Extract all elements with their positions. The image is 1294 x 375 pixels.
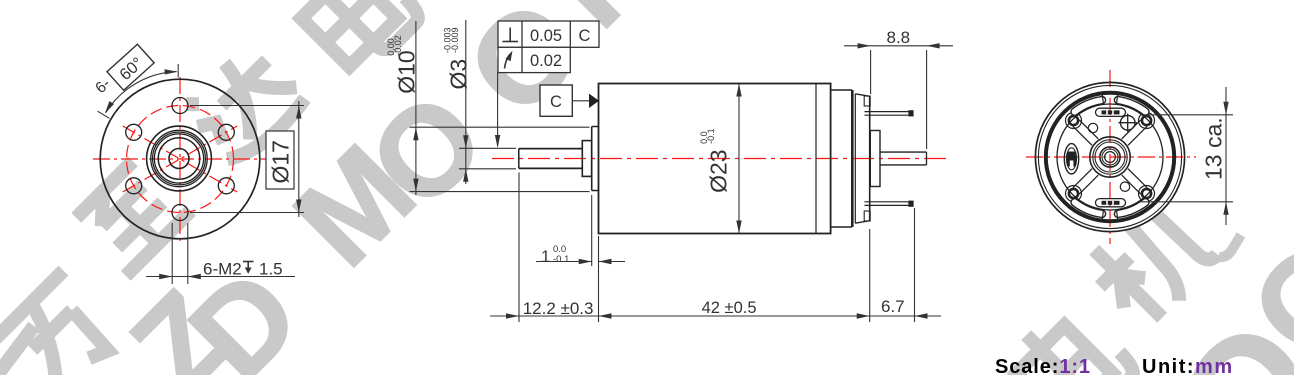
rear ring A top: [831, 89, 852, 91]
front boss bottom: [592, 190, 599, 192]
fcf frame row2: [498, 47, 570, 72]
crescent lower-right: [1118, 202, 1145, 214]
arc arrow right: [165, 69, 178, 74]
red radial 30-210: [123, 126, 237, 192]
spoke lower-left: [1073, 169, 1092, 188]
rear shaft top: [880, 151, 927, 153]
rear face: [869, 96, 871, 220]
svg-text:C: C: [579, 27, 591, 45]
arrow 6.7 right: [915, 313, 928, 318]
inner face circle: [1057, 104, 1163, 210]
dim 13 line: [1225, 87, 1227, 225]
bearing ring 3: [154, 134, 203, 183]
bearing ring 1: [151, 130, 207, 186]
rear ring A face thick: [851, 90, 854, 227]
fcf leader: [497, 73, 499, 146]
bottom ext line pin end: [914, 208, 916, 322]
rear shaft end: [926, 152, 928, 165]
shaft top: [519, 148, 583, 150]
dim phi3 ext bottom: [459, 168, 516, 170]
dim 8.8 arrow left: [858, 43, 871, 48]
terminal pin bottom tip: [908, 201, 913, 207]
terminal pin bottom: [865, 201, 914, 203]
dim 17 extension top: [190, 105, 304, 107]
svg-text:6-M2: 6-M2: [203, 260, 242, 279]
shaft bottom: [519, 167, 583, 169]
datum leader: [572, 100, 590, 102]
red bolt circle: [127, 106, 234, 213]
svg-text:42 ±0.5: 42 ±0.5: [702, 299, 757, 317]
watermark corner bar: [0, 326, 34, 374]
svg-text:Ø10: Ø10: [393, 50, 419, 93]
grommet outer: [1064, 144, 1078, 174]
rivet upper-right: [1139, 113, 1155, 129]
arc tick at 150deg: [98, 111, 110, 118]
watermark hanzi ji: [1079, 190, 1222, 333]
bottom ext line rear face: [869, 229, 871, 322]
dim phi3 arrow down: [463, 135, 468, 148]
dim 1 arrow left: [599, 259, 612, 264]
rivet lower-right: [1139, 186, 1155, 202]
hub ring 4: [1100, 147, 1120, 167]
svg-text:-0.1: -0.1: [706, 128, 716, 144]
vent screw circle: [1120, 115, 1135, 130]
red centerline: [492, 158, 947, 160]
dim 1 ext left: [591, 195, 593, 266]
crescent upper-left: [1075, 100, 1102, 112]
rolled rim thick ring: [1046, 93, 1174, 221]
terminal slot bottom: [1096, 199, 1126, 207]
dim phi17 box: [266, 131, 294, 189]
bolt hole top: [172, 98, 188, 114]
crescent upper-right: [1118, 100, 1145, 112]
front boss top: [592, 126, 599, 128]
dim 1 arrow right: [579, 259, 592, 264]
arrow at body face: [599, 313, 612, 318]
dim 8.8 line: [844, 45, 953, 47]
dim phi10 line: [415, 21, 417, 195]
hub ring 3: [1095, 142, 1125, 172]
red centerline horizontal: [1026, 156, 1196, 158]
dim 8.8 ext left: [870, 50, 872, 94]
dim 1 line right: [599, 261, 626, 263]
spoke lower-right: [1128, 169, 1147, 188]
fcf frame row1: [498, 21, 599, 47]
svg-text:Unit:mm: Unit:mm: [1142, 356, 1234, 375]
shaft collar: [582, 141, 591, 177]
depth symbol: [243, 262, 254, 270]
bearing ring 2: [153, 132, 206, 185]
dim 1 line left: [536, 261, 592, 263]
dim phi3 arrow up: [463, 169, 468, 182]
dim 17 line: [298, 101, 300, 217]
rivet lower-left: [1066, 186, 1082, 202]
dim 8.8 ext right: [926, 50, 928, 149]
bottom dim line: [490, 315, 941, 317]
dim 13 ext bottom: [1140, 201, 1233, 203]
dim phi23 arrow up: [736, 84, 741, 97]
grommet inner: [1067, 148, 1077, 170]
hole tangent line left: [171, 223, 173, 284]
small hole lower-right: [1120, 182, 1129, 191]
dim phi10 text: [386, 35, 420, 94]
rivet upper-left: [1066, 113, 1082, 129]
svg-text:Scale:1:1: Scale:1:1: [995, 356, 1091, 375]
dim 13 ext top: [1140, 114, 1233, 116]
bolt hole bottom: [172, 205, 188, 221]
dim 6-M2 line: [146, 276, 295, 278]
bearing ring 4: [158, 138, 200, 180]
outer circle inner edge: [1038, 85, 1181, 228]
svg-text:Ø23: Ø23: [705, 149, 731, 192]
perpendicularity symbol: [503, 28, 519, 42]
hole tangent line right: [187, 223, 189, 284]
terminal slot top: [1096, 108, 1126, 116]
svg-text:C: C: [550, 93, 562, 111]
rear ring A bottom: [831, 226, 852, 228]
sector edge top-left: [1102, 93, 1103, 103]
terminal pin top tip: [908, 110, 913, 116]
svg-text:8.8: 8.8: [887, 28, 911, 47]
dim 17 arrow up: [296, 106, 301, 119]
arrow 42 right: [857, 313, 870, 318]
svg-text:13 ca.: 13 ca.: [1201, 117, 1227, 180]
sector edge bottom-right: [1117, 211, 1118, 221]
front boss circle: [147, 126, 212, 191]
motor body: [599, 84, 831, 234]
bolt hole lower-left: [126, 178, 142, 194]
dim 13 arrow top: [1223, 102, 1228, 115]
svg-text:Ø17: Ø17: [268, 140, 294, 183]
shaft circle: [169, 149, 189, 169]
watermark hanzi da: [178, 39, 309, 170]
rear hub: [870, 131, 880, 187]
spoke upper-left: [1073, 126, 1092, 145]
svg-text:0.05: 0.05: [530, 27, 562, 45]
dim 13 arrow bottom: [1223, 202, 1228, 215]
svg-text:Ø3: Ø3: [446, 59, 472, 90]
rear ring B top: [855, 94, 869, 97]
crescent lower-left: [1075, 202, 1102, 214]
bottom ext line shaft end: [518, 173, 520, 323]
svg-text:6-: 6-: [92, 75, 114, 97]
arc tick at 90deg: [177, 64, 179, 78]
dim phi3 ext top: [459, 147, 516, 149]
dim phi3 line: [465, 20, 467, 184]
svg-text:1.5: 1.5: [259, 260, 283, 279]
arc arrow left: [105, 101, 114, 114]
svg-text:1: 1: [541, 248, 550, 266]
svg-text:12.2 ±0.3: 12.2 ±0.3: [523, 299, 594, 318]
sector edge bottom-left: [1102, 211, 1103, 221]
watermark hanzi dian top: [287, 0, 423, 78]
dim phi10 arrow down: [413, 179, 418, 192]
dim 8.8 arrow right: [927, 43, 940, 48]
flange outer circle: [100, 79, 260, 239]
bolt hole upper-left: [126, 124, 142, 140]
rear ring B bottom: [855, 221, 869, 224]
hub ring 5: [1102, 149, 1118, 165]
dim phi10 ext top: [410, 126, 590, 128]
dim 17 extension bottom: [190, 212, 304, 214]
svg-text:6.7: 6.7: [881, 297, 905, 316]
datum C box: [540, 85, 572, 116]
bolt hole lower-right: [218, 178, 234, 194]
front boss face: [591, 127, 593, 191]
svg-text:-0.009: -0.009: [450, 27, 460, 53]
watermark stray hook: [1219, 235, 1241, 257]
dim phi3 text: [443, 27, 472, 89]
angular dimension arc 60deg: [106, 72, 177, 113]
svg-text:0.02: 0.02: [530, 52, 562, 70]
dim phi10 arrow up: [413, 127, 418, 140]
arrow at shaft end: [506, 313, 519, 318]
bottom ext line body face: [598, 236, 600, 322]
dim 17 arrow down: [296, 200, 301, 213]
terminal bump top: [864, 96, 870, 106]
dim phi10 ext bottom: [410, 191, 590, 193]
dim 6-M2 arrow right: [188, 274, 201, 279]
terminal pin top: [865, 111, 914, 113]
hub ring 6: [1105, 152, 1116, 163]
watermark hanzi wan: [0, 271, 126, 375]
svg-text:-0.02: -0.02: [393, 35, 403, 56]
svg-text:-0.1: -0.1: [553, 254, 569, 265]
terminal bump bottom: [864, 211, 870, 221]
shaft end cap: [518, 149, 520, 169]
dim phi23 arrow down: [736, 221, 741, 234]
grommet plug: [1067, 152, 1077, 167]
red centerline vertical: [1109, 70, 1111, 244]
outer circle: [1035, 82, 1184, 231]
rear shaft bottom: [880, 164, 927, 166]
dim 6-M2 arrow left: [159, 274, 172, 279]
dim phi23 text: [699, 128, 731, 193]
runout symbol: [505, 54, 511, 69]
hub ring 1: [1090, 137, 1130, 177]
small hole upper-left: [1088, 123, 1097, 132]
datum triangle: [589, 94, 599, 108]
red centerline vertical: [179, 77, 181, 245]
dim phi23 line: [738, 84, 740, 234]
red centerline horizontal: [93, 158, 267, 160]
watermark hanzi dian bottom-right: [1002, 297, 1138, 375]
hub ring 2: [1093, 140, 1127, 174]
label 60deg box: [107, 44, 154, 90]
bolt hole upper-right: [218, 124, 234, 140]
watermark hanzi zhi: [72, 157, 191, 276]
rear ring B left: [854, 94, 856, 223]
sector edge top-right: [1117, 93, 1118, 103]
red radial 150-330: [123, 126, 237, 192]
rear view background disc: [1035, 82, 1184, 231]
spoke upper-right: [1128, 126, 1147, 145]
body seam: [815, 84, 817, 234]
